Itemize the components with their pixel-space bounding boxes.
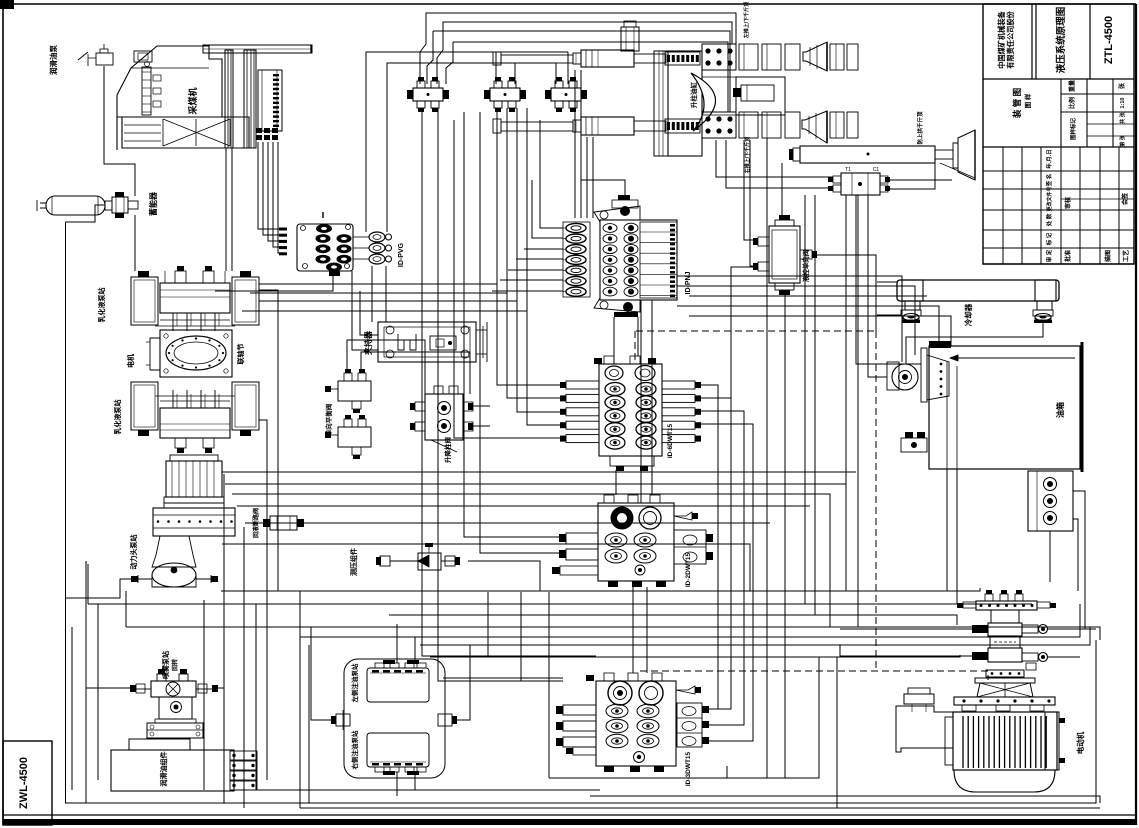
push cylinder lower 左推上/下千斤顶: [493, 117, 700, 135]
svg-text:蓄能器: 蓄能器: [148, 191, 158, 216]
emulsion pump lower 乳化液泵: [131, 382, 259, 453]
wire bus mid 591: [221, 588, 980, 591]
wire fourport to tank 2: [868, 195, 887, 377]
svg-text:动力头泵站: 动力头泵站: [129, 535, 138, 570]
svg-text:油箱: 油箱: [1055, 402, 1065, 418]
label 喷雾泵站: [161, 651, 179, 679]
wire pump right 1: [259, 290, 278, 591]
wire right bundle 4: [677, 306, 939, 346]
svg-text:图样标记: 图样标记: [1069, 118, 1077, 141]
wire v3 top link: [433, 63, 556, 84]
svg-text:乳化液泵站: 乳化液泵站: [113, 400, 122, 435]
svg-text:回转: 回转: [171, 659, 179, 671]
rod cylinder top: [621, 21, 639, 51]
svg-text:更改文件号: 更改文件号: [1046, 186, 1053, 211]
svg-text:第 张: 第 张: [1119, 134, 1126, 146]
wire bottom bus 796: [590, 796, 1100, 803]
svg-text:防上拱千斤顶: 防上拱千斤顶: [916, 111, 924, 145]
check valve 测压组件: [376, 543, 460, 570]
filter outlet wires: [1073, 491, 1085, 629]
svg-text:签 名: 签 名: [1045, 174, 1053, 188]
wire bus mid 627: [126, 591, 1100, 640]
title block cell 装管图: [1012, 88, 1032, 119]
spray pump 喷雾泵站: [111, 669, 234, 791]
svg-text:T1: T1: [845, 167, 851, 173]
svg-text:ID-PNJ: ID-PNJ: [685, 271, 692, 294]
svg-text:ZWL-4500: ZWL-4500: [18, 757, 30, 809]
wire mid trunk 484: [225, 483, 846, 485]
svg-text:比例: 比例: [1068, 97, 1076, 109]
wire yoke dropper: [766, 138, 768, 778]
wire power head left: [66, 579, 139, 598]
svg-text:图 样: 图 样: [1023, 93, 1032, 108]
svg-text:1:10: 1:10: [1120, 97, 1126, 108]
wire bottom mid verticals: [488, 592, 549, 778]
wire v2 feed: [366, 52, 496, 232]
wire right verticals 1: [804, 195, 806, 604]
push cylinder upper 右推上/下千斤顶: [493, 50, 700, 67]
wire lift valve right: [473, 406, 490, 426]
svg-text:张: 张: [1118, 82, 1126, 89]
valve manifold ID-6DWT15: [560, 356, 701, 471]
wire spray pump right: [218, 687, 224, 689]
wire lube side right: [452, 645, 470, 720]
svg-text:审 定: 审 定: [1045, 249, 1053, 262]
electric motor 电动机: [896, 688, 1065, 792]
valve manifold ID-3DWT15: [556, 673, 709, 772]
wire dropper e: [497, 108, 566, 385]
wire cylinder to pnj verticals: [575, 70, 593, 218]
svg-text:标 记: 标 记: [1045, 232, 1053, 246]
wire right bundle 3: [689, 295, 927, 297]
wire bottom bus 808: [300, 807, 1100, 809]
wire bus3 drop: [427, 31, 433, 84]
svg-text:右侧注油泵站: 右侧注油泵站: [350, 730, 359, 771]
valve manifold ID-2DWT15: [552, 495, 713, 587]
valve manifold ID-PVG: [279, 212, 392, 276]
wire dropper h: [527, 108, 566, 425]
wire tank bottom 2: [956, 469, 958, 604]
wire right verticals 4: [857, 195, 859, 627]
wire manifold6 left feeds: [454, 120, 566, 438]
wire power head right: [211, 578, 218, 580]
lift-lower valve 升降柱阀: [410, 386, 473, 452]
motor pedestal: [954, 678, 1055, 711]
wire pnj left feeds: [492, 120, 563, 291]
svg-text:夹持器: 夹持器: [363, 330, 373, 355]
wire lube bottom: [397, 772, 415, 796]
wire lube side left: [311, 627, 336, 720]
coupling flange 联轴节: [146, 330, 232, 377]
wire mid trunk 472: [222, 471, 856, 473]
wire right verticals 2: [814, 195, 816, 615]
cylinder yoke upper: [702, 44, 800, 70]
svg-text:描图: 描图: [1104, 250, 1112, 262]
lubrication loop: [344, 659, 445, 778]
return filter 过滤器: [1028, 471, 1073, 531]
shearer machine 采煤机: [117, 45, 312, 150]
pump on machine left: [78, 44, 113, 66]
wire valve4 to mount: [888, 163, 952, 189]
wire bus mid 637: [300, 591, 1080, 637]
wire cyl lower down 1: [716, 140, 833, 177]
wire dashed branch down: [634, 331, 636, 364]
wire mid trunk 494: [232, 494, 830, 627]
wire cooler top link: [877, 281, 897, 283]
wire right verticals 3: [845, 195, 847, 591]
wire right bundle 2: [677, 286, 915, 355]
wire bottom bus 778: [549, 657, 819, 778]
wire manifold PVG bottom: [215, 271, 333, 291]
wire bus4 drop: [446, 42, 453, 84]
wire top bus 1: [420, 13, 736, 84]
balance valve upper 单向阀: [325, 369, 371, 413]
tank drain valve: [901, 432, 927, 452]
svg-text:ID-PVG: ID-PVG: [398, 242, 405, 267]
wire dropper c: [464, 112, 566, 537]
pump on tank 回油泵: [887, 341, 951, 402]
wire pump trunk 2: [250, 292, 507, 294]
wire cooler left link: [877, 314, 901, 316]
wire crawler to manifold 1: [258, 142, 279, 229]
wire dropper b: [438, 108, 563, 681]
wire motor stack left: [840, 629, 972, 656]
wire right bundle 5: [689, 316, 951, 346]
svg-text:联轴节: 联轴节: [236, 344, 245, 365]
wire trunk left: [66, 222, 1097, 803]
wire accumulator to machine: [104, 66, 135, 196]
wire check valve bottom: [784, 295, 786, 778]
wire top bus 3: [433, 31, 730, 112]
svg-text:中国煤矿机械装备: 中国煤矿机械装备: [997, 10, 1006, 68]
svg-text:润滑油组件: 润滑油组件: [159, 752, 168, 787]
wire mid trunk 523: [245, 522, 770, 524]
lubricator lower 右侧注油泵站: [367, 733, 429, 775]
wire bus mid 645: [420, 627, 1090, 645]
wire manifold2 feed 1: [640, 300, 642, 503]
wire mid trunk 544: [222, 544, 750, 591]
wire fourport to tank 1: [856, 195, 921, 364]
wire manifold3 feeds: [633, 587, 647, 673]
wire crawler to manifold 2: [263, 142, 279, 235]
anti-arch cylinder 防上拱千斤顶: [789, 130, 975, 180]
valve manifold ID-PNJ: [563, 195, 677, 317]
wire filter down: [1049, 531, 1051, 582]
wire right vert 837: [836, 657, 838, 808]
wire bus mid 615: [389, 615, 957, 625]
wire manifold2 feed 2: [651, 300, 653, 495]
wire dropper f: [507, 108, 566, 398]
wire pump station down 1: [223, 474, 225, 803]
wire check valve top: [781, 163, 783, 220]
wire crawler to manifold 3: [268, 142, 279, 241]
wire spray pump left: [86, 687, 130, 689]
accumulator 蓄能器: [37, 192, 138, 218]
pilot-operated check valve 液控单向阀: [753, 215, 817, 295]
svg-text:ZTL-4500: ZTL-4500: [1103, 16, 1115, 64]
wire bus mid 657: [430, 655, 960, 657]
wire v3 top 2: [366, 52, 568, 84]
wire cyl to check valve: [744, 140, 758, 266]
svg-text:液压系统原理图: 液压系统原理图: [1055, 7, 1067, 74]
svg-text:ID-3DWT15: ID-3DWT15: [685, 751, 692, 786]
svg-text:装 管 图: 装 管 图: [1012, 88, 1022, 119]
wire pnj bottom: [614, 317, 638, 364]
wire bottom bus 778b: [726, 766, 728, 778]
svg-text:C1: C1: [873, 167, 880, 173]
wire pump trunk 4: [242, 310, 527, 312]
svg-text:左推上/下千斤顶: 左推上/下千斤顶: [743, 2, 750, 39]
loop side fittings: [331, 710, 457, 730]
svg-text:ID-6DWT15: ID-6DWT15: [667, 423, 674, 458]
svg-text:喷雾泵站: 喷雾泵站: [161, 651, 170, 679]
wire bus 678: [443, 677, 563, 679]
bell mouth upper: [803, 42, 858, 71]
svg-text:左侧注油泵站: 左侧注油泵站: [350, 663, 359, 704]
shuttle valve block V1: [407, 77, 449, 112]
wire pump trunk 1: [259, 283, 497, 285]
shuttle valve block V2: [484, 77, 526, 112]
svg-text:重量: 重量: [1068, 80, 1076, 92]
svg-text:审核: 审核: [1064, 197, 1072, 209]
wire pump station down 2: [243, 527, 245, 808]
emulsion pump upper 乳化液泵: [131, 266, 259, 331]
corner box ZWL-4500: [3, 741, 52, 825]
wire pnj top feed: [581, 160, 625, 195]
shuttle valve block V3: [545, 77, 587, 112]
svg-text:润滑油泵: 润滑油泵: [48, 45, 58, 75]
wire lube top feeds: [397, 624, 415, 663]
pilot valve block 四通阀: [828, 167, 890, 195]
wire crawler to manifold 5: [278, 142, 279, 253]
clamp 夹持器: [378, 322, 487, 362]
wire cyl lower down 2: [726, 140, 833, 188]
wire machine column down 2: [231, 148, 233, 271]
wire manifold6 right routes: [697, 385, 718, 709]
oil tank 油箱: [929, 342, 1082, 472]
svg-text:升柱油缸: 升柱油缸: [689, 82, 698, 109]
stop valve 截止阀: [263, 516, 304, 530]
svg-text:工艺: 工艺: [1122, 250, 1130, 262]
svg-text:采煤机: 采煤机: [187, 87, 198, 115]
svg-text:电机: 电机: [126, 354, 135, 368]
wire top bus 4: [453, 42, 728, 112]
cylinder yoke lower: [702, 112, 800, 138]
svg-text:会签: 会签: [1121, 192, 1129, 205]
wire balance valve links: [347, 340, 470, 394]
wire pump trunk 3: [259, 300, 517, 302]
svg-text:共 张: 共 张: [1119, 111, 1126, 123]
svg-text:批准: 批准: [1064, 250, 1072, 262]
wire accumulator down: [134, 215, 136, 271]
svg-text:年.月.日: 年.月.日: [1045, 149, 1053, 169]
wire motor stack right: [1048, 629, 1096, 657]
wire gauge right link: [468, 561, 540, 591]
wire clamp feeds: [352, 271, 378, 350]
wire mid trunk 506: [237, 505, 810, 507]
balance valve lower 单向阀: [325, 415, 371, 459]
wire check valve left lower: [731, 267, 758, 604]
power-head pump 动力头泵站: [131, 455, 235, 587]
svg-text:ID-2DWT15: ID-2DWT15: [685, 552, 692, 587]
wire dashed bypass bottom: [640, 671, 988, 680]
wire cooler right drop: [906, 321, 1043, 364]
svg-text:有限责任公司股份: 有限责任公司股份: [1006, 10, 1015, 68]
wire check valve right: [812, 255, 876, 331]
svg-text:乳化液泵站: 乳化液泵站: [97, 288, 106, 323]
wire machine column down 1: [225, 148, 227, 271]
bell mouth lower: [802, 111, 858, 143]
wire dropper g: [517, 108, 566, 412]
wire pump right 2: [259, 420, 267, 780]
wire top bus 2: [437, 22, 732, 84]
title block small labels: [1045, 80, 1130, 262]
wire tank bottom 1: [946, 469, 948, 591]
wire dashed bypass top: [636, 330, 876, 332]
suction valve stack: [957, 590, 1056, 677]
lubricator upper 左侧注油泵站: [367, 660, 429, 702]
coupler stack: [230, 751, 257, 790]
cooler 冷却器: [897, 280, 1059, 323]
wire crawler to manifold 4: [273, 142, 279, 247]
wire dropper a: [422, 108, 596, 656]
svg-text:升降柱阀: 升降柱阀: [443, 437, 452, 464]
wire left verticals extra: [72, 561, 309, 808]
lift cylinder column 升柱油缸: [654, 51, 785, 156]
wire bottom bus 790: [230, 789, 600, 791]
svg-text:单向平衡阀: 单向平衡阀: [324, 403, 333, 436]
svg-text:冷却器: 冷却器: [963, 303, 973, 326]
wire pvg aux down: [372, 266, 386, 322]
wire accumulator trunk join: [66, 205, 106, 222]
wire bus mid 604: [88, 564, 1032, 604]
title block grid: [983, 4, 1134, 264]
wire right bundle 1: [677, 276, 902, 362]
title block company name text: [997, 10, 1015, 68]
wire v3 feed: [387, 63, 515, 232]
svg-text:电动机: 电动机: [1075, 731, 1085, 754]
svg-text:测压组件: 测压组件: [349, 548, 358, 576]
svg-text:处 数: 处 数: [1045, 213, 1053, 227]
wire manifold2-3 link 1: [615, 470, 617, 495]
wire dropper d: [480, 112, 566, 553]
wire dashed bypass vert: [875, 331, 877, 671]
